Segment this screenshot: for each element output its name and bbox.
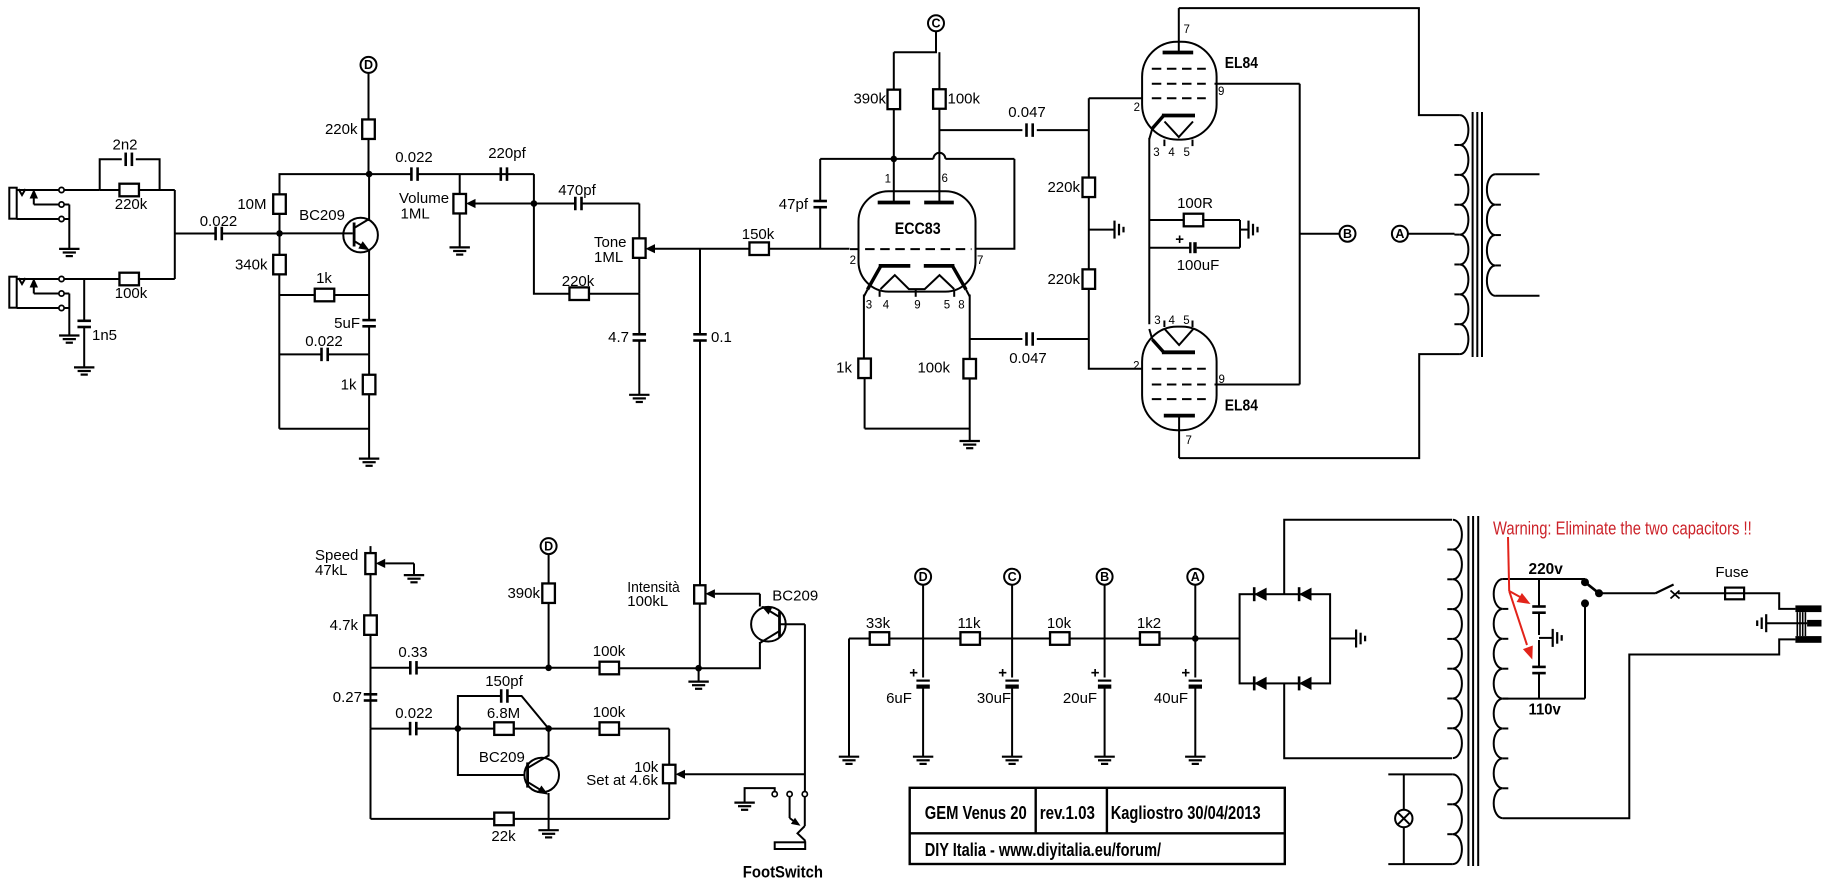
svg-text:220k: 220k xyxy=(562,273,595,290)
svg-text:6.8M: 6.8M xyxy=(487,705,520,722)
wire Q3 base xyxy=(780,623,805,625)
selector dot common xyxy=(1595,589,1603,597)
input jack J2 xyxy=(9,276,69,310)
resistor 340k xyxy=(235,255,286,275)
OT bottom bus xyxy=(1179,354,1460,458)
resistor 10M xyxy=(237,194,285,214)
svg-text:5uF: 5uF xyxy=(334,315,360,332)
ground (grid rail) xyxy=(1089,221,1124,239)
svg-text:GEM Venus 20: GEM Venus 20 xyxy=(925,803,1027,823)
svg-text:4: 4 xyxy=(1168,147,1175,159)
EL84#1 pin labels 345 xyxy=(1153,147,1190,159)
capacitor 0.022 to volume xyxy=(369,149,534,181)
svg-text:4: 4 xyxy=(1168,315,1175,327)
wire to coupling cap xyxy=(175,233,216,235)
svg-text:100uF: 100uF xyxy=(1177,257,1220,274)
svg-text:10k: 10k xyxy=(1047,615,1072,632)
ECC83 cathode pin8 tail xyxy=(953,267,970,359)
wire collector node to 10M xyxy=(280,174,370,194)
resistor 100k tremolo1 xyxy=(549,643,699,674)
capacitor mains lower xyxy=(1532,640,1546,699)
svg-text:4.7: 4.7 xyxy=(608,329,629,346)
wire 2n2 branch xyxy=(100,159,160,190)
node D3 (supply D) xyxy=(541,538,557,554)
svg-text:5: 5 xyxy=(1183,315,1189,327)
ground (jack J1) xyxy=(59,205,79,257)
input jack J1 xyxy=(9,187,69,221)
ECC83 pin4 stub xyxy=(879,290,881,297)
svg-text:20uF: 20uF xyxy=(1063,690,1097,707)
ground (intens) xyxy=(688,668,708,689)
svg-text:EL84: EL84 xyxy=(1225,397,1258,414)
svg-text:DIY Italia - www.diyitalia.eu/: DIY Italia - www.diyitalia.eu/forum/ xyxy=(925,840,1161,860)
psu rail A xyxy=(1194,584,1196,677)
EL84#1 pin2 label xyxy=(1134,102,1140,114)
ground (speed) xyxy=(404,575,424,582)
capacitor 150pf xyxy=(458,673,549,729)
node C1 (supply C) xyxy=(928,15,944,31)
svg-text:220k: 220k xyxy=(1047,179,1080,196)
svg-text:0.022: 0.022 xyxy=(305,333,343,350)
svg-text:1n5: 1n5 xyxy=(92,327,117,344)
wire to tone node xyxy=(533,174,535,203)
transistor Q2 BC209 xyxy=(479,749,559,795)
wire collector up xyxy=(368,174,370,221)
resistor 100R xyxy=(1149,195,1240,226)
resistor 100k cathode xyxy=(917,359,976,441)
ground (volume) xyxy=(450,247,470,254)
wire C down xyxy=(894,31,940,90)
wire left rail xyxy=(278,274,280,428)
svg-text:6: 6 xyxy=(942,173,948,185)
PT heater winding xyxy=(1447,774,1462,864)
node anode bus xyxy=(891,156,898,163)
svg-text:BC209: BC209 xyxy=(772,588,818,605)
wire J2 tip xyxy=(64,278,119,280)
wire D to 220k xyxy=(368,73,370,120)
ground (bridge +) xyxy=(1330,630,1365,648)
diode D1 xyxy=(1254,587,1266,601)
svg-text:9: 9 xyxy=(914,300,920,312)
svg-text:+: + xyxy=(998,665,1007,682)
svg-text:rev.1.03: rev.1.03 xyxy=(1040,803,1095,823)
selector dot 110v xyxy=(1581,599,1589,607)
wire 390k down xyxy=(548,603,550,668)
capacitor 0.022 feedback xyxy=(279,333,369,361)
svg-text:Set at 4.6k: Set at 4.6k xyxy=(586,772,658,789)
svg-text:Warning: Eliminate the two cap: Warning: Eliminate the two capacitors !! xyxy=(1493,519,1752,539)
svg-text:+: + xyxy=(1181,665,1190,682)
svg-text:6uF: 6uF xyxy=(886,690,912,707)
resistor 100k anode load xyxy=(933,89,980,109)
svg-text:1: 1 xyxy=(885,174,891,186)
EL84#2 cathode bar xyxy=(1162,350,1195,354)
svg-text:EL84: EL84 xyxy=(1225,55,1258,72)
ground (mains caps) xyxy=(1539,629,1562,647)
wire cathode bottom xyxy=(865,428,970,430)
svg-text:100k: 100k xyxy=(917,360,950,377)
psu left drop xyxy=(848,639,850,757)
svg-text:C: C xyxy=(931,17,940,31)
svg-text:9: 9 xyxy=(1218,86,1224,98)
PT mains winding xyxy=(1494,579,1509,818)
resistor 220k grid upper xyxy=(1047,178,1095,198)
wire D to 390k xyxy=(548,554,550,583)
ground (20uF) xyxy=(1094,757,1114,764)
svg-text:100k: 100k xyxy=(593,643,626,660)
ground (ECC83 cathodes) xyxy=(960,441,980,448)
node C2 (supply C) xyxy=(1004,569,1020,585)
wire emitter down xyxy=(368,250,370,296)
node collector xyxy=(366,171,373,178)
PT core xyxy=(1468,516,1478,866)
svg-text:1k2: 1k2 xyxy=(1137,615,1161,632)
pot Volume 1ML xyxy=(399,174,534,247)
node D2 (supply D) xyxy=(915,569,931,585)
svg-text:3: 3 xyxy=(866,300,872,312)
svg-text:7: 7 xyxy=(977,255,983,267)
node tremolo base xyxy=(455,725,462,732)
svg-text:0.33: 0.33 xyxy=(398,644,427,661)
svg-text:100R: 100R xyxy=(1177,195,1213,212)
svg-text:7: 7 xyxy=(1184,24,1190,36)
capacitor 2n2 xyxy=(112,137,137,167)
EL84#2 cathode tail xyxy=(1149,329,1163,352)
tube U1 ECC83 envelope xyxy=(859,191,976,291)
svg-text:470pf: 470pf xyxy=(558,182,596,199)
svg-text:150pf: 150pf xyxy=(485,673,523,690)
wire bottom loop xyxy=(279,428,369,430)
svg-text:220v: 220v xyxy=(1529,561,1563,578)
node A2 (supply A) xyxy=(1187,569,1203,585)
resistor 1k cathode xyxy=(836,359,871,429)
svg-text:D: D xyxy=(364,58,373,72)
power switch xyxy=(1656,585,1680,599)
wire pin2 upper xyxy=(1089,97,1143,99)
resistor 4.7k xyxy=(330,615,377,728)
resistor 390k tremolo xyxy=(507,583,554,603)
svg-text:1k: 1k xyxy=(316,270,332,287)
svg-text:100k: 100k xyxy=(115,285,148,302)
diode D4 xyxy=(1299,676,1311,690)
svg-text:10M: 10M xyxy=(237,196,266,213)
OT top bus xyxy=(1179,8,1460,115)
resistor 6.8M xyxy=(458,705,549,735)
psu main wire xyxy=(849,638,1240,640)
svg-text:1k: 1k xyxy=(836,360,852,377)
svg-text:9: 9 xyxy=(1219,374,1225,386)
EL84#1 cathode bar xyxy=(1162,114,1195,118)
capacitor 0.022 coupling xyxy=(200,213,280,240)
capacitor 0.047 lower xyxy=(970,332,1089,367)
EL84#1 cathode tail xyxy=(1149,116,1163,324)
tube V2 EL84 envelope xyxy=(1142,327,1258,431)
node intens ground xyxy=(695,665,702,672)
ground (tone 4.7) xyxy=(629,395,649,402)
svg-text:40uF: 40uF xyxy=(1154,690,1188,707)
svg-text:22k: 22k xyxy=(491,828,516,845)
wire EL84 grid rail top xyxy=(1088,98,1090,177)
svg-text:100k: 100k xyxy=(948,91,981,108)
ground (mains earth) xyxy=(1757,614,1807,632)
wire anode feedback bus xyxy=(820,153,1014,159)
wire 10M to base xyxy=(279,214,281,234)
resistor 220k collector load xyxy=(325,119,375,139)
capacitor 0.1 xyxy=(693,249,732,586)
wire Q3 collector xyxy=(699,642,760,668)
wire fuse to plug xyxy=(1744,593,1795,609)
svg-text:D: D xyxy=(919,570,928,584)
svg-text:5: 5 xyxy=(1183,147,1189,159)
psu rail C xyxy=(1011,584,1013,677)
svg-text:11k: 11k xyxy=(957,615,981,632)
bridge rectifier square xyxy=(1240,594,1331,683)
svg-text:220k: 220k xyxy=(1047,271,1080,288)
svg-text:3: 3 xyxy=(1153,147,1159,159)
svg-text:D: D xyxy=(544,539,553,553)
svg-text:0.022: 0.022 xyxy=(395,149,433,166)
ECC83 pin9 stub xyxy=(915,289,917,297)
capacitor 4.7 xyxy=(608,294,646,395)
svg-text:0.047: 0.047 xyxy=(1009,350,1047,367)
capacitor 5uF emitter xyxy=(334,295,376,354)
svg-text:C: C xyxy=(1008,570,1017,584)
svg-text:BC209: BC209 xyxy=(299,207,345,224)
ECC83 cathode 1 bar xyxy=(879,264,911,268)
capacitor 470pf xyxy=(534,182,639,210)
wire fs rail xyxy=(804,624,806,791)
wire switch to fuse xyxy=(1678,592,1725,594)
wire 220k to collector node xyxy=(368,139,370,174)
capacitor 0.33 xyxy=(371,644,549,675)
svg-text:33k: 33k xyxy=(866,615,891,632)
resistor 150k xyxy=(700,226,850,255)
EL84#2 anode bar xyxy=(1164,414,1195,418)
ECC83 pin 6 label xyxy=(942,173,948,185)
warning arrows xyxy=(1508,537,1533,660)
capacitor 6uF xyxy=(886,665,930,757)
svg-text:+: + xyxy=(1091,665,1100,682)
svg-text:47pf: 47pf xyxy=(779,196,809,213)
OT core xyxy=(1473,112,1482,357)
EL84#1 grid dashes xyxy=(1152,69,1206,99)
ECC83 cathode pin3 tail xyxy=(864,267,881,359)
resistor 220k grid lower xyxy=(1047,269,1095,289)
ground (Q1 emitter chain) xyxy=(359,459,379,466)
ECC83 pin 7 label xyxy=(977,255,983,267)
svg-text:7: 7 xyxy=(1186,435,1192,447)
svg-text:2: 2 xyxy=(1133,361,1139,373)
node B2 (supply B) xyxy=(1097,569,1113,585)
ECC83 heater V1 xyxy=(881,275,955,289)
diode D3 xyxy=(1254,676,1266,690)
EL84#2 pin7 wire xyxy=(1179,418,1192,459)
svg-text:A: A xyxy=(1191,570,1200,584)
resistor 33k xyxy=(866,615,891,645)
ECC83 cathode 2 bar xyxy=(924,264,955,268)
EL84#2 heater V xyxy=(1165,329,1194,345)
capacitor mains upper xyxy=(1532,579,1546,635)
wire rail bottom xyxy=(1089,289,1143,369)
svg-text:0.022: 0.022 xyxy=(200,213,238,230)
mains 110v lead xyxy=(1503,603,1585,718)
wire mains bottom xyxy=(1503,639,1796,818)
svg-text:340k: 340k xyxy=(235,257,268,274)
psu rail B xyxy=(1104,584,1106,677)
svg-text:0.047: 0.047 xyxy=(1008,104,1046,121)
diode D2 xyxy=(1299,587,1311,601)
svg-text:150k: 150k xyxy=(742,226,775,243)
ground (40uF) xyxy=(1185,757,1205,764)
svg-text:4.7k: 4.7k xyxy=(330,617,359,634)
capacitor 1n5 xyxy=(77,279,117,367)
svg-text:2: 2 xyxy=(850,255,856,267)
wire Q2 collector xyxy=(548,729,550,757)
capacitor 0.022 tremolo xyxy=(371,705,458,735)
transistor Q1 BC209 xyxy=(299,207,378,252)
node B xyxy=(1300,84,1356,385)
node tremolo fb xyxy=(545,725,552,732)
svg-text:2: 2 xyxy=(1134,102,1140,114)
EL84#1 anode bar xyxy=(1163,51,1194,55)
capacitor 20uF xyxy=(1063,665,1111,757)
wire 340k down xyxy=(279,233,281,255)
pot Speed 47kL xyxy=(315,546,414,615)
node A xyxy=(1392,226,1455,242)
EL84#1 pin7 label xyxy=(1184,24,1190,36)
resistor 11k xyxy=(957,615,981,645)
ECC83 pin 1 label xyxy=(885,174,891,186)
node D1 (supply D) xyxy=(361,57,377,73)
ground (100R network) xyxy=(1240,221,1258,239)
EL84#2 pin labels 345 xyxy=(1154,315,1189,327)
lamp (pilot light) xyxy=(1395,774,1412,864)
svg-text:110v: 110v xyxy=(1529,702,1561,719)
node psu A junction xyxy=(1192,635,1199,642)
svg-text:BC209: BC209 xyxy=(479,749,525,766)
svg-text:2n2: 2n2 xyxy=(112,137,137,154)
wire input rail xyxy=(174,190,176,279)
svg-text:5: 5 xyxy=(944,300,950,312)
svg-text:0.1: 0.1 xyxy=(711,329,732,346)
EL84#1 pin9 wire xyxy=(1215,84,1300,98)
resistor 1k emitter h xyxy=(279,270,369,301)
capacitor 30uF xyxy=(977,665,1019,757)
ECC83 lower pin labels xyxy=(866,300,965,312)
ECC83 anode pin6 bar xyxy=(924,201,954,205)
ground (footswitch) xyxy=(734,803,754,810)
wire base Q2 xyxy=(458,729,525,775)
capacitor 0.047 upper xyxy=(939,104,1088,137)
resistor 10k xyxy=(1047,615,1072,645)
svg-text:390k: 390k xyxy=(507,585,540,602)
svg-text:0.27: 0.27 xyxy=(333,689,362,706)
ground (30uF) xyxy=(1002,757,1022,764)
PT HV winding xyxy=(1447,520,1462,758)
capacitor 100uF xyxy=(1149,231,1240,274)
svg-text:B: B xyxy=(1100,570,1109,584)
svg-text:1ML: 1ML xyxy=(401,205,430,222)
pot 10k Set at 4.6k xyxy=(586,729,805,819)
wire feedback right xyxy=(976,159,1015,249)
footswitch xyxy=(743,788,823,881)
ground (1n5) xyxy=(74,367,94,374)
psu rail D xyxy=(922,584,924,677)
svg-text:B: B xyxy=(1343,227,1352,241)
ground (6uF) xyxy=(913,757,933,764)
resistor 390k anode load xyxy=(853,52,900,159)
svg-text:A: A xyxy=(1395,227,1404,241)
title block xyxy=(910,788,1285,864)
EL84#2 pin9 wire xyxy=(1215,374,1300,386)
EL84#2 pin stubs xyxy=(1164,321,1192,328)
resistor 1k vertical xyxy=(341,354,376,459)
transistor Q3 BC209 (mirrored) xyxy=(751,588,818,644)
OT secondary coil xyxy=(1487,174,1501,296)
wire rail mid xyxy=(1088,197,1090,269)
svg-text:3: 3 xyxy=(1154,315,1160,327)
node tone xyxy=(531,200,538,207)
bridge AC top wire xyxy=(1284,520,1452,595)
EL84#1 pin7 wire xyxy=(1178,8,1180,52)
svg-text:100kL: 100kL xyxy=(627,593,668,610)
svg-text:390k: 390k xyxy=(853,91,886,108)
svg-text:Kagliostro 30/04/2013: Kagliostro 30/04/2013 xyxy=(1111,803,1261,823)
svg-text:220k: 220k xyxy=(115,196,148,213)
ground (psu left) xyxy=(839,757,859,764)
svg-text:220pf: 220pf xyxy=(488,145,526,162)
capacitor 0.27 xyxy=(333,689,377,706)
svg-text:1k: 1k xyxy=(341,377,357,394)
pot Intensita 100kL xyxy=(627,579,760,668)
wire Q3 emitter xyxy=(759,594,761,607)
resistor 1k2 xyxy=(1137,615,1161,645)
svg-text:+: + xyxy=(1175,231,1184,248)
wire 100k to pin6 xyxy=(938,109,940,203)
pot Tone 1ML xyxy=(594,204,700,294)
wire J1 tip to input network xyxy=(64,189,99,191)
mains plug xyxy=(1795,605,1821,642)
svg-text:ECC83: ECC83 xyxy=(895,220,941,238)
svg-text:4: 4 xyxy=(883,300,890,312)
capacitor 220pf xyxy=(488,145,526,181)
selector dot 220v xyxy=(1581,578,1589,586)
wire pin1 up xyxy=(893,159,895,203)
bridge AC bottom wire xyxy=(1284,683,1452,758)
node base Q1 xyxy=(276,230,283,237)
OT secondary leads xyxy=(1495,174,1539,295)
wire 100R right xyxy=(1239,220,1241,248)
resistor 220k input xyxy=(100,184,175,213)
svg-text:8: 8 xyxy=(958,300,964,312)
ECC83 pin 2 label xyxy=(850,255,856,267)
wire tremolo bottom xyxy=(371,729,670,819)
resistor 100k input xyxy=(115,273,175,302)
svg-text:+: + xyxy=(909,665,918,682)
capacitor 47pf xyxy=(779,159,827,249)
svg-text:100k: 100k xyxy=(593,704,626,721)
EL84#1 heater V xyxy=(1165,122,1194,138)
PT heater leads xyxy=(1388,774,1453,864)
resistor 220k tone xyxy=(534,204,639,301)
wire selector to switch xyxy=(1599,592,1656,594)
resistor 22k xyxy=(491,813,516,845)
ECC83 grid dashed line xyxy=(850,248,972,250)
svg-text:FootSwitch: FootSwitch xyxy=(743,864,823,882)
EL84#2 grid dashes xyxy=(1152,369,1206,399)
svg-text:47kL: 47kL xyxy=(315,562,348,579)
OT primary coil xyxy=(1454,115,1468,354)
